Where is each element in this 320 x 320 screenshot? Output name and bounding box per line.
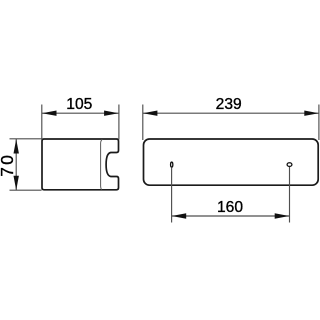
dim 70 extension lines (10, 138, 42, 140)
hole right (287, 163, 292, 167)
dim 70 line (15, 139, 17, 190)
dim 105 extension lines (41, 105, 43, 140)
svg-text:70: 70 (0, 153, 17, 177)
dim 239 extension lines (142, 105, 144, 141)
hole left (171, 162, 173, 167)
dim 239 arrows (143, 111, 158, 116)
side view outline (42, 139, 119, 190)
side view seam line (101, 139, 103, 189)
dim 105 arrows (42, 111, 57, 116)
dim 70 arrows (14, 139, 19, 154)
dim 105 line (42, 112, 119, 114)
svg-text:239: 239 (216, 96, 242, 113)
front view outline (144, 139, 319, 185)
dim 160 line (172, 215, 290, 217)
svg-text:105: 105 (66, 96, 92, 113)
dim 160 arrows (172, 213, 187, 218)
dim 239 line (143, 112, 319, 114)
dim 160 extension lines (171, 167, 173, 222)
svg-text:160: 160 (217, 199, 243, 216)
